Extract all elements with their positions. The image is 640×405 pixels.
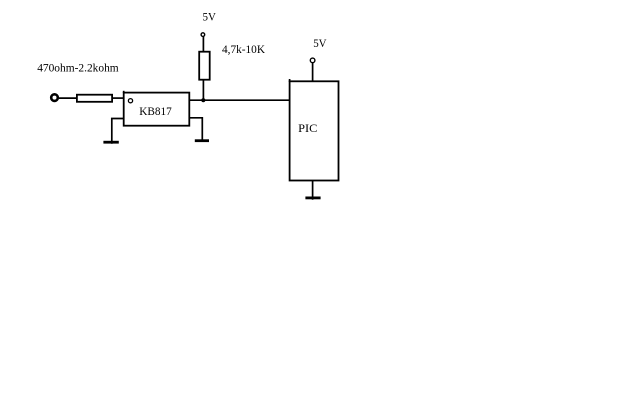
svg-text:5V: 5V: [313, 36, 327, 50]
svg-text:4,7k-10K: 4,7k-10K: [222, 42, 265, 56]
svg-text:470ohm-2.2kohm: 470ohm-2.2kohm: [37, 61, 119, 75]
svg-text:KB817: KB817: [139, 104, 172, 118]
svg-text:5V: 5V: [203, 10, 217, 24]
svg-text:PIC: PIC: [298, 121, 317, 135]
